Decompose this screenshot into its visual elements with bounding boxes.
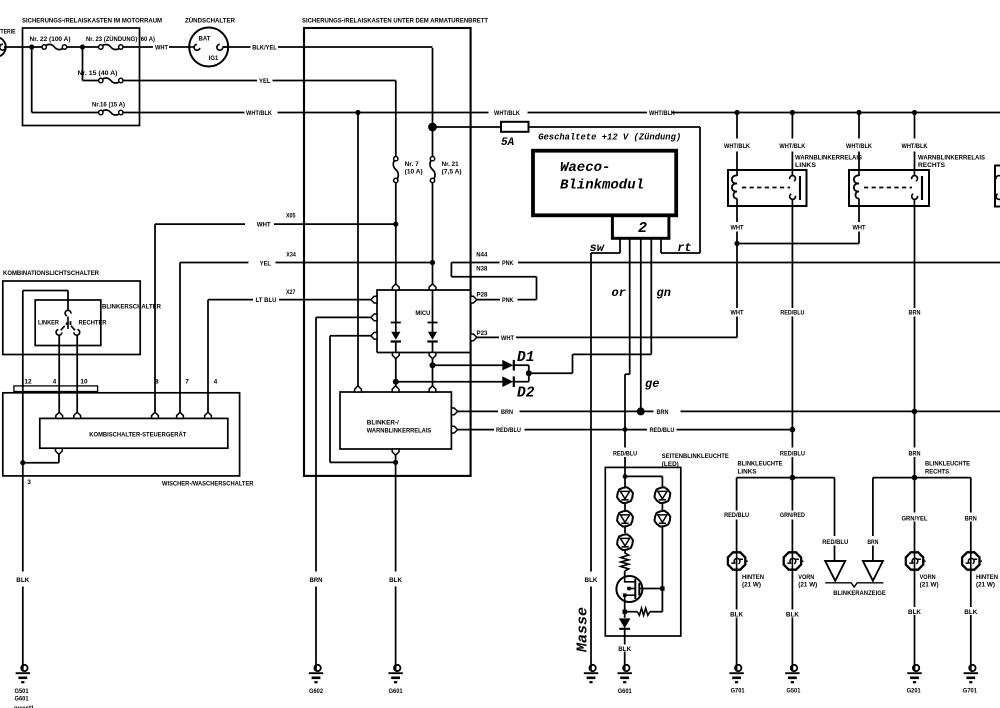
svg-text:LINKS: LINKS [795, 162, 816, 169]
svg-text:PNK: PNK [502, 297, 514, 304]
svg-text:BLK: BLK [585, 577, 598, 584]
svg-text:or: or [612, 286, 626, 300]
svg-text:Blinkmodul: Blinkmodul [560, 178, 644, 194]
svg-text:YEL: YEL [260, 261, 271, 268]
svg-text:G601: G601 [389, 688, 404, 695]
svg-text:WHT: WHT [853, 225, 867, 232]
svg-text:BLINKERSCHALTER: BLINKERSCHALTER [102, 304, 161, 311]
svg-text:LINKS: LINKS [738, 469, 757, 476]
svg-text:Nr. 22 (100 A): Nr. 22 (100 A) [30, 36, 71, 43]
svg-text:BAT: BAT [199, 36, 212, 43]
svg-text:Nr. 21: Nr. 21 [442, 161, 459, 168]
svg-text:KOMBISCHALTER-STEUERGERÄT: KOMBISCHALTER-STEUERGERÄT [89, 430, 187, 438]
svg-text:BLK: BLK [389, 577, 402, 584]
svg-text:WHT: WHT [731, 225, 745, 232]
svg-text:BLK: BLK [16, 577, 29, 584]
svg-text:D2: D2 [517, 385, 535, 401]
svg-text:BLK: BLK [618, 646, 631, 653]
svg-text:GRN/RED: GRN/RED [780, 512, 805, 519]
svg-text:HINTEN: HINTEN [976, 574, 998, 581]
svg-text:WHT/BLK: WHT/BLK [494, 110, 520, 117]
svg-text:BRN: BRN [657, 409, 669, 416]
svg-text:PNK: PNK [502, 260, 514, 267]
svg-text:7: 7 [185, 379, 189, 386]
svg-text:SICHERUNGS-/RELAISKASTEN IM MO: SICHERUNGS-/RELAISKASTEN IM MOTORRAUM [22, 18, 162, 25]
svg-text:BRN: BRN [501, 409, 513, 416]
svg-text:WHT/BLK: WHT/BLK [649, 110, 675, 117]
svg-text:(21 W): (21 W) [742, 581, 761, 588]
svg-text:YEL: YEL [259, 78, 271, 85]
svg-text:BLINKLEUCHTE: BLINKLEUCHTE [925, 461, 970, 468]
svg-text:RECHTER: RECHTER [79, 320, 107, 327]
svg-text:RED/BLU: RED/BLU [496, 427, 521, 434]
svg-text:G602: G602 [309, 688, 324, 695]
svg-text:P23: P23 [477, 330, 488, 337]
svg-text:LINKER: LINKER [38, 320, 59, 327]
svg-text:RED/BLU: RED/BLU [780, 310, 804, 317]
svg-text:WHT: WHT [155, 45, 169, 52]
svg-text:BLINKERANZEIGE: BLINKERANZEIGE [833, 590, 886, 597]
svg-text:Nr. 15 (40 A): Nr. 15 (40 A) [78, 70, 118, 77]
svg-text:3: 3 [27, 479, 31, 486]
svg-text:WISCHER-/WASCHERSCHALTER: WISCHER-/WASCHERSCHALTER [162, 481, 254, 488]
svg-text:MICU: MICU [415, 310, 430, 317]
svg-text:BRN: BRN [909, 450, 921, 457]
svg-text:IG1: IG1 [209, 55, 219, 62]
svg-text:WARNBLINKERRELAIS: WARNBLINKERRELAIS [918, 155, 985, 162]
svg-text:N44: N44 [476, 252, 487, 259]
svg-text:(10 A): (10 A) [405, 169, 423, 176]
svg-text:BRN: BRN [909, 310, 921, 317]
svg-text:12: 12 [24, 379, 32, 386]
svg-text:G601: G601 [618, 688, 633, 695]
svg-text:BATTERIE: BATTERIE [0, 29, 16, 36]
svg-text:(21 W): (21 W) [798, 581, 817, 588]
svg-text:(21 W): (21 W) [976, 581, 995, 588]
svg-text:G201: G201 [907, 688, 922, 695]
svg-text:X34: X34 [286, 252, 296, 259]
svg-text:WHT: WHT [501, 335, 515, 342]
svg-text:RECHTS: RECHTS [925, 469, 949, 476]
svg-text:BLK: BLK [908, 609, 921, 616]
svg-text:WARNBLINKERRELAIS: WARNBLINKERRELAIS [367, 427, 432, 434]
svg-text:LT BLU: LT BLU [256, 297, 277, 304]
svg-text:10: 10 [80, 379, 88, 386]
svg-text:G701: G701 [731, 687, 746, 694]
svg-text:VORN: VORN [920, 574, 936, 581]
svg-text:(LED): (LED) [662, 461, 679, 468]
svg-text:ZÜNDSCHALTER: ZÜNDSCHALTER [185, 16, 235, 25]
svg-text:4: 4 [214, 379, 218, 386]
svg-text:G501: G501 [786, 687, 801, 694]
svg-text:SICHERUNGS-/RELAISKASTEN UNTER: SICHERUNGS-/RELAISKASTEN UNTER DEM ARMAT… [302, 18, 489, 25]
svg-text:Masse: Masse [575, 607, 592, 653]
svg-text:KOMBINATIONSLICHTSCHALTER: KOMBINATIONSLICHTSCHALTER [3, 270, 99, 277]
svg-text:RED/BLU: RED/BLU [724, 512, 749, 519]
svg-text:X05: X05 [286, 213, 296, 220]
svg-text:X27: X27 [286, 289, 296, 296]
svg-text:Waeco-: Waeco- [560, 160, 610, 176]
svg-text:ge: ge [645, 377, 659, 391]
svg-text:RED/BLU: RED/BLU [613, 450, 637, 457]
svg-text:WARNBLINKERRELAIS: WARNBLINKERRELAIS [795, 155, 862, 162]
svg-text:N38: N38 [476, 266, 487, 273]
svg-text:BLK/YEL: BLK/YEL [252, 45, 276, 52]
svg-text:BLINKLEUCHTE: BLINKLEUCHTE [738, 461, 783, 468]
svg-text:BRN: BRN [867, 539, 878, 546]
svg-text:gn: gn [657, 286, 671, 300]
svg-text:BLK: BLK [964, 609, 977, 616]
svg-text:WHT: WHT [257, 222, 272, 229]
svg-text:Geschaltete +12 V (Zündung): Geschaltete +12 V (Zündung) [538, 131, 681, 142]
svg-text:Nr. 23 (ZÜNDUNG) (60 A): Nr. 23 (ZÜNDUNG) (60 A) [86, 34, 155, 43]
svg-text:5A: 5A [501, 137, 515, 149]
svg-text:(21 W): (21 W) [920, 581, 939, 588]
svg-text:BLK: BLK [786, 612, 799, 619]
svg-text:WHT/BLK: WHT/BLK [246, 110, 272, 117]
svg-text:G601: G601 [15, 696, 30, 703]
svg-text:RECHTS: RECHTS [918, 162, 945, 169]
svg-text:WHT/BLK: WHT/BLK [846, 143, 872, 150]
svg-text:BRN: BRN [965, 515, 977, 522]
svg-text:RED/BLU: RED/BLU [780, 450, 805, 457]
svg-text:Nr.16 (15 A): Nr.16 (15 A) [92, 102, 125, 109]
svg-text:(7,5 A): (7,5 A) [442, 169, 462, 176]
svg-text:8: 8 [155, 379, 159, 386]
svg-text:G501: G501 [15, 688, 30, 695]
svg-text:2: 2 [638, 220, 647, 237]
svg-text:Nr. 7: Nr. 7 [405, 161, 420, 168]
svg-text:G701: G701 [963, 688, 978, 695]
svg-text:sw: sw [590, 241, 605, 255]
svg-text:WHT/BLK: WHT/BLK [902, 143, 928, 150]
svg-text:VORN: VORN [798, 574, 814, 581]
svg-text:BLK: BLK [730, 612, 743, 619]
svg-text:WHT: WHT [731, 310, 745, 317]
svg-text:WHT/BLK: WHT/BLK [724, 143, 750, 150]
svg-text:P28: P28 [477, 292, 488, 299]
svg-text:rt: rt [677, 241, 691, 255]
svg-text:HINTEN: HINTEN [742, 574, 764, 581]
svg-text:BRN: BRN [310, 577, 323, 584]
svg-text:D1: D1 [517, 350, 534, 366]
svg-text:BLINKER-/: BLINKER-/ [367, 420, 399, 427]
svg-text:WHT/BLK: WHT/BLK [779, 143, 805, 150]
svg-text:RED/BLU: RED/BLU [822, 539, 848, 546]
svg-text:4: 4 [53, 379, 57, 386]
svg-text:GRN/YEL: GRN/YEL [902, 515, 928, 522]
svg-text:RED/BLU: RED/BLU [650, 427, 675, 434]
svg-text:SEITENBLINKLEUCHTE: SEITENBLINKLEUCHTE [662, 453, 729, 460]
